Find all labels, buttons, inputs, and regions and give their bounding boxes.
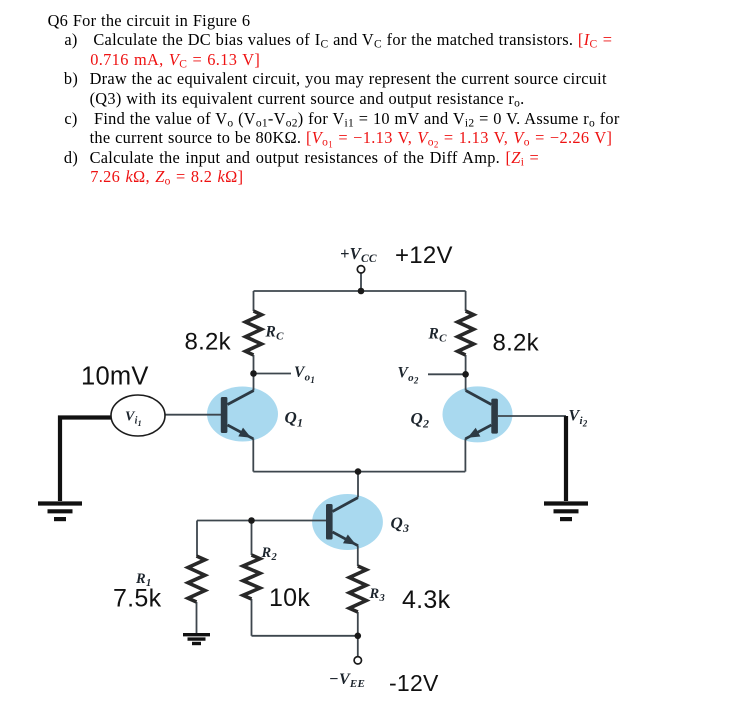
svg-text:R1: R1 — [135, 571, 151, 589]
svg-text:Vi2: Vi2 — [569, 408, 588, 429]
svg-text:8.2k: 8.2k — [493, 330, 540, 357]
svg-text:Q1: Q1 — [285, 408, 304, 430]
svg-text:4.3k: 4.3k — [402, 586, 451, 614]
svg-text:RC: RC — [265, 324, 285, 343]
svg-text:10mV: 10mV — [81, 363, 149, 391]
svg-text:Vo2: Vo2 — [398, 365, 419, 386]
svg-text:RC: RC — [428, 326, 448, 345]
svg-text:-12V: -12V — [389, 670, 439, 696]
svg-text:+12V: +12V — [395, 242, 453, 269]
svg-text:Vo1: Vo1 — [294, 364, 315, 385]
svg-text:R3: R3 — [369, 586, 385, 604]
svg-text:7.5k: 7.5k — [113, 585, 162, 613]
svg-text:+VCC: +VCC — [340, 244, 377, 265]
svg-text:Q2: Q2 — [411, 409, 430, 431]
svg-text:R2: R2 — [261, 545, 278, 563]
svg-text:Q3: Q3 — [391, 514, 410, 536]
svg-text:10k: 10k — [269, 584, 310, 612]
svg-text:8.2k: 8.2k — [185, 329, 232, 356]
svg-text:−VEE: −VEE — [329, 671, 365, 690]
